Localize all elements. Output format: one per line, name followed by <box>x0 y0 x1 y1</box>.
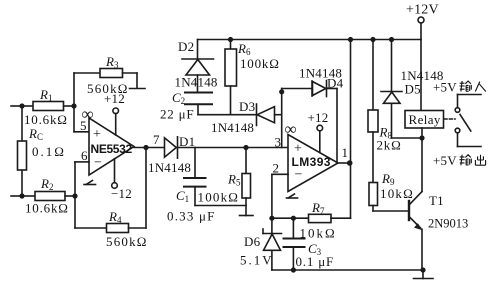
node: junction below D4 corner <box>279 89 284 94</box>
svg-text:Relay: Relay <box>409 112 441 127</box>
ground: reference mark under LM393 <box>287 194 298 198</box>
ground: C1/R5 return bar <box>240 215 254 217</box>
node: rail junction at D5 <box>389 37 394 42</box>
svg-text:T1: T1 <box>429 193 444 208</box>
svg-text:2: 2 <box>273 161 280 176</box>
svg-text:−12: −12 <box>111 186 132 201</box>
resistor R4 <box>75 224 146 233</box>
transistor T1 2N9013 <box>409 192 423 271</box>
svg-text:100kΩ: 100kΩ <box>240 56 280 71</box>
svg-text:D4: D4 <box>327 76 344 91</box>
svg-text:0.1 μF: 0.1 μF <box>296 254 335 269</box>
svg-text:+12: +12 <box>308 110 329 125</box>
switch contact lower <box>455 128 481 146</box>
node: output junction <box>347 160 353 166</box>
capacitor C2 <box>185 93 212 105</box>
svg-text:D3: D3 <box>239 99 255 114</box>
node: emitter/ground junction <box>420 267 425 272</box>
svg-text:D2: D2 <box>178 39 194 54</box>
wire: feedback riser to output <box>145 148 147 229</box>
svg-text:560kΩ: 560kΩ <box>106 234 148 249</box>
svg-text:7: 7 <box>153 132 160 147</box>
wire: bottom return rail <box>272 269 423 271</box>
resistor Rc <box>18 141 27 170</box>
ground: reference mark under NE5532 <box>84 181 96 185</box>
svg-text:5.1V: 5.1V <box>240 253 274 268</box>
svg-text:D6: D6 <box>244 234 261 249</box>
ground: main ground symbol <box>414 270 434 279</box>
+12 terminal of LM393 <box>317 125 323 152</box>
wire: rail down to D2 <box>197 40 199 60</box>
diode D5 <box>381 40 422 139</box>
diode D3 <box>257 104 282 126</box>
wire: comparator output <box>338 162 351 164</box>
wire: bus from C2 to D3 cathode <box>198 114 257 116</box>
wire: inverting input down to R7 node <box>271 174 273 218</box>
svg-text:10.6kΩ: 10.6kΩ <box>24 112 68 127</box>
svg-text:10kΩ: 10kΩ <box>380 186 414 201</box>
resistor R7 <box>272 214 351 222</box>
diode D4 <box>282 81 337 97</box>
node: output feedback junction <box>143 145 148 150</box>
wire: inverting input riser to R4 <box>74 162 76 228</box>
resistor R8 <box>368 40 378 183</box>
svg-text:2kΩ: 2kΩ <box>377 138 402 153</box>
node: input stub upper <box>11 105 22 107</box>
wire: output vertical to rail and R7 <box>350 40 352 219</box>
node: rail junction at R8 <box>370 37 375 42</box>
node: D6/R7 junction <box>269 216 274 221</box>
node: D5/relay/collector junction <box>419 135 424 140</box>
zener diode D6 <box>263 218 282 270</box>
svg-text:LM393: LM393 <box>292 155 331 169</box>
svg-text:+12: +12 <box>104 91 125 106</box>
wire: relay actuation dashed link <box>444 118 455 120</box>
wire: non-inverting input riser <box>74 73 89 132</box>
svg-text:+5V: +5V <box>433 80 457 95</box>
node: rail junction at R6 <box>228 37 233 42</box>
svg-text:1N4148: 1N4148 <box>148 160 191 175</box>
svg-text:6: 6 <box>81 148 88 163</box>
svg-text:2N9013: 2N9013 <box>428 217 468 231</box>
resistor R3 <box>74 69 137 89</box>
node: input stub lower <box>11 195 22 197</box>
capacitor C3 <box>284 218 305 270</box>
svg-text:∞: ∞ <box>285 120 297 139</box>
resistor R9 <box>369 183 409 212</box>
svg-text:−: − <box>295 168 303 183</box>
svg-text:5: 5 <box>80 118 87 133</box>
resistor R6 <box>225 40 237 115</box>
label +5V output <box>433 153 486 168</box>
svg-text:3: 3 <box>275 135 282 150</box>
resistor R5 <box>195 148 251 216</box>
wire: left sense rail <box>21 106 23 196</box>
relay K1 <box>405 111 444 192</box>
svg-text:1N4148: 1N4148 <box>211 120 254 135</box>
node: C3 bottom junction <box>291 267 296 272</box>
node: R5 tap <box>243 145 248 150</box>
svg-text:22 μF: 22 μF <box>160 107 194 122</box>
node: rail junction at output pull wire <box>348 37 353 42</box>
ground: R3 return bar <box>130 88 146 90</box>
wire: C2 bottom to bus <box>197 104 199 115</box>
wire: rail down to relay coil <box>420 40 422 111</box>
svg-text:0.1Ω: 0.1Ω <box>32 144 66 159</box>
svg-text:+12V: +12V <box>406 3 439 18</box>
comparator U2 LM393 <box>272 135 338 192</box>
wire: top +12V rail <box>198 39 422 41</box>
svg-text:+: + <box>93 127 101 142</box>
svg-text:NE5532: NE5532 <box>91 142 133 156</box>
node: C3 top junction <box>291 216 296 221</box>
diode D2 <box>182 59 214 75</box>
wire: main signal line D1 to comparator pin3 <box>178 147 289 149</box>
svg-text:+5V: +5V <box>433 153 457 168</box>
node: R2/R4 junction <box>72 193 77 198</box>
+12V supply terminal <box>418 17 424 40</box>
switch blade <box>460 115 471 132</box>
svg-text:−: − <box>94 156 102 171</box>
resistor R2 <box>22 192 75 201</box>
switch contact upper <box>455 95 481 113</box>
resistor R1 <box>22 102 74 111</box>
svg-text:D1: D1 <box>179 134 195 149</box>
svg-text:D5: D5 <box>405 82 421 97</box>
wire: op-amp output to D1 <box>134 147 165 149</box>
svg-text:1N4148: 1N4148 <box>175 75 218 90</box>
svg-text:1: 1 <box>342 145 349 160</box>
+12 terminal of NE5532 <box>113 108 119 135</box>
wire: hysteresis node vertical <box>281 89 283 148</box>
svg-text:10kΩ: 10kΩ <box>300 226 337 241</box>
svg-text:10.6kΩ: 10.6kΩ <box>25 201 69 216</box>
-12 terminal of NE5532 <box>112 159 118 189</box>
op-amp U1 NE5532 <box>75 118 134 175</box>
node: R1/R3 junction <box>71 103 76 108</box>
diode D1 <box>165 137 178 158</box>
capacitor C1 <box>184 148 206 206</box>
svg-text:100kΩ: 100kΩ <box>198 190 240 205</box>
label +5V input <box>433 80 486 95</box>
wire: D2 anode to C2 <box>197 75 199 93</box>
svg-text:0.33 μF: 0.33 μF <box>167 209 216 224</box>
wire: D4 cathode down to comparator output <box>336 89 338 163</box>
